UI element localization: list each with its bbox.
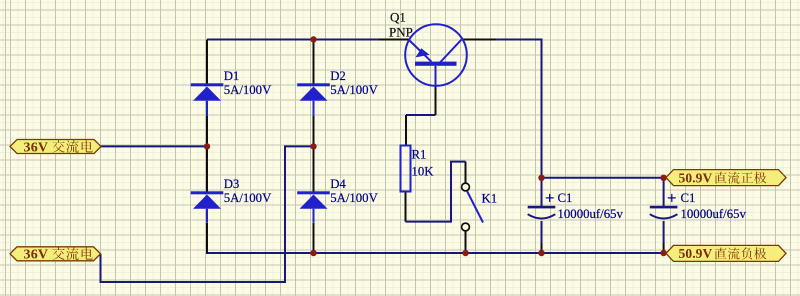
svg-text:10000uf/65v: 10000uf/65v (681, 207, 747, 221)
svg-text:D3: D3 (224, 177, 240, 191)
wire R1 to K1 (406, 162, 466, 222)
pin left branch upper (D1) (206, 40, 208, 85)
pin right branch upper (D2) (313, 40, 315, 85)
pin left branch D1-bottom short lead (206, 101, 208, 116)
pin right branch D2-bottom short lead (313, 101, 315, 116)
capacitor C1b (650, 194, 678, 219)
pin R1 top (405, 115, 407, 146)
diode D1 (191, 83, 224, 115)
junction positive / C1a (538, 175, 544, 181)
pin C1b bottom (663, 221, 665, 243)
wire collector to filter (top right) (496, 40, 542, 178)
switch K1 (462, 183, 483, 231)
svg-text:C1: C1 (558, 191, 573, 205)
svg-text:R1: R1 (412, 148, 427, 162)
resistor R1 (401, 146, 411, 192)
pin Q1 emitter (left) (379, 39, 410, 41)
pin K1 top (465, 162, 467, 183)
pin C1b top (663, 178, 665, 206)
svg-text:D2: D2 (330, 69, 346, 83)
pin R1 bottom (405, 192, 407, 222)
svg-text:C1: C1 (681, 191, 696, 205)
svg-text:D4: D4 (330, 177, 346, 191)
svg-text:10K: 10K (412, 165, 435, 179)
wire AC input 2 (36V to bridge right) (101, 146, 314, 282)
svg-text:36V: 36V (24, 248, 49, 263)
svg-text:5A/100V: 5A/100V (224, 83, 272, 97)
pin right branch middle (313, 116, 315, 192)
svg-text:10000uf/65v: 10000uf/65v (558, 207, 624, 221)
pin C1a bottom (541, 221, 543, 243)
wire bottom rail (negative) (206, 252, 664, 254)
capacitor C1a (528, 194, 556, 219)
diode D2 (297, 83, 330, 115)
diode D3 (191, 191, 224, 223)
transistor Q1 (405, 24, 467, 86)
junction bottom rail / D4 (310, 250, 316, 256)
junction bottom rail / C1a (538, 250, 544, 256)
pin right branch lower lead (313, 223, 315, 253)
junction bottom rail / K1 (462, 250, 468, 256)
svg-text:50.9V: 50.9V (679, 246, 713, 261)
svg-text:5A/100V: 5A/100V (330, 83, 378, 97)
svg-text:36V: 36V (24, 140, 49, 155)
wire positive rail (542, 177, 664, 179)
pin C1a top (541, 178, 543, 206)
junction AC1 / left branch (204, 143, 210, 149)
junction bottom rail / C1b (660, 250, 666, 256)
power port 36V AC (lower) (10, 247, 101, 263)
pin left branch lower lead (206, 223, 208, 253)
power port 50.9V DC positive (666, 170, 786, 186)
diode D4 (297, 191, 330, 223)
pin left branch middle (206, 116, 208, 192)
wire base to R1 (406, 114, 436, 116)
svg-text:Q1: Q1 (390, 10, 406, 25)
pin Q1 collector (right) (462, 39, 496, 41)
junction top rail / D2 (310, 36, 316, 42)
junction positive / C1b (660, 175, 666, 181)
power port 36V AC (upper) (10, 140, 101, 156)
svg-text:50.9V: 50.9V (679, 170, 713, 185)
wire AC input 1 (36V to bridge left) (101, 145, 208, 147)
wire top rail (207, 39, 379, 41)
junction AC2 / right branch (310, 143, 316, 149)
svg-text:5A/100V: 5A/100V (330, 191, 378, 205)
pin Q1 base (down) (435, 86, 437, 115)
svg-text:PNP: PNP (389, 25, 413, 40)
svg-text:K1: K1 (482, 192, 498, 206)
svg-text:D1: D1 (224, 69, 240, 83)
power port 50.9V DC negative (666, 245, 786, 261)
pin K1 bottom (465, 231, 467, 253)
svg-text:5A/100V: 5A/100V (224, 191, 272, 205)
